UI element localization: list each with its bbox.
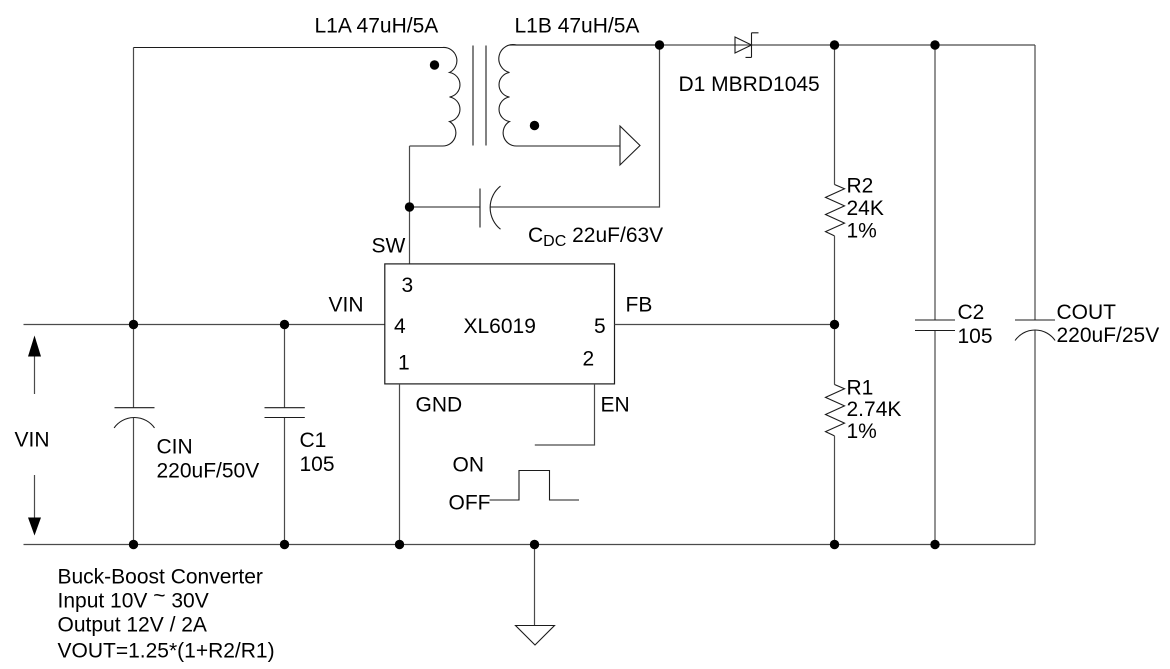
node junction VOUT/R2 top (830, 40, 839, 49)
svg-text:1%: 1% (847, 420, 877, 443)
ON/OFF pulse waveform (490, 471, 580, 501)
svg-text:XL6019: XL6019 (464, 315, 536, 338)
svg-text:CIN: CIN (157, 436, 193, 459)
wire: FB to divider (615, 324, 835, 326)
wire: CDC left segment (410, 206, 481, 208)
node junction VOUT/C2 top (930, 40, 939, 49)
node junction GND rail/IC GND (395, 540, 404, 549)
node junction GND rail/ground symbol (530, 540, 539, 549)
wire: GND pin stub to rail (399, 384, 401, 545)
svg-text:220uF/25V: 220uF/25V (1057, 324, 1160, 347)
wire: EN pin stub (535, 384, 595, 445)
arrow at secondary output (620, 126, 640, 165)
svg-text:L1A 47uH/5A: L1A 47uH/5A (315, 15, 439, 38)
svg-text:4: 4 (394, 315, 406, 338)
svg-text:3: 3 (402, 274, 414, 297)
node junction GND rail/C2 bottom (930, 540, 939, 549)
capacitor CIN plates (115, 407, 155, 409)
wire: left vertical rail x=133 (top segment above CIN) (133, 48, 135, 408)
node junction VIN rail/C1 (280, 320, 289, 329)
diode D1 MBRD1045 (735, 37, 752, 53)
wire: top output rail y=44.5 (secondary to COUT) (510, 44, 1036, 46)
svg-text:Output 12V / 2A: Output 12V / 2A (58, 614, 207, 637)
node junction L1B/D1 anode (655, 40, 664, 49)
svg-text:C2: C2 (958, 301, 985, 324)
svg-text:D1 MBRD1045: D1 MBRD1045 (679, 73, 820, 96)
VIN measure arrow (34, 356, 36, 520)
capacitor C2 plates (915, 320, 955, 331)
capacitor CDC plates (479, 189, 481, 228)
polarity dot primary (430, 60, 439, 69)
transformer core lines (473, 46, 486, 146)
svg-text:R2: R2 (847, 175, 874, 198)
node SW junction dot (405, 202, 414, 211)
wire: VIN input rail y=324 (24, 324, 385, 326)
svg-text:COUT: COUT (1057, 301, 1117, 324)
wire: left vertical rail x=133 (below CIN) (133, 418, 135, 545)
svg-text:105: 105 (300, 453, 335, 476)
ground stub (534, 545, 536, 626)
svg-text:R1: R1 (847, 377, 874, 400)
svg-text:FB: FB (626, 294, 653, 317)
svg-text:VIN: VIN (329, 294, 364, 317)
wire: CDC right segment and riser x=659 (491, 45, 660, 207)
svg-text:24K: 24K (847, 197, 884, 220)
resistor R1 (826, 385, 845, 436)
svg-text:GND: GND (416, 394, 463, 417)
inductor L1B secondary winding (499, 45, 660, 146)
node junction VIN rail/CIN (129, 320, 138, 329)
wire: COUT branch x=1034.5 (1034, 45, 1036, 545)
resistor R2 (826, 185, 845, 236)
wire: C1 branch x=284 (284, 325, 286, 545)
svg-text:220uF/50V: 220uF/50V (157, 460, 260, 483)
svg-text:Input 10V ~ 30V: Input 10V ~ 30V (58, 585, 209, 613)
svg-text:2.74K: 2.74K (847, 398, 902, 421)
svg-text:105: 105 (958, 325, 993, 348)
op-amp U1 XL6019 IC box (385, 264, 615, 384)
node junction GND rail/R1 bottom (830, 540, 839, 549)
svg-text:OFF: OFF (449, 492, 491, 515)
svg-text:L1B 47uH/5A: L1B 47uH/5A (515, 15, 640, 38)
svg-text:SW: SW (372, 235, 406, 258)
node junction GND rail/C1 (280, 540, 289, 549)
svg-text:EN: EN (601, 394, 630, 417)
ground symbol (516, 626, 555, 646)
polarity dot secondary (530, 121, 539, 130)
capacitor COUT plates (1015, 319, 1055, 321)
capacitor C1 plates (265, 408, 305, 418)
svg-text:VOUT=1.25*(1+R2/R1): VOUT=1.25*(1+R2/R1) (58, 640, 275, 663)
wire: bottom ground rail y=544 (24, 544, 1036, 546)
wire: SW branch x=409 from primary bottom to IC pin 3 (409, 146, 411, 264)
svg-text:2: 2 (583, 348, 595, 371)
wire: divider branch x=834 with resistors (834, 45, 836, 185)
svg-text:5: 5 (594, 315, 606, 338)
node junction FB/R2/R1 (830, 320, 839, 329)
svg-text:C1: C1 (300, 429, 327, 452)
svg-text:ON: ON (453, 454, 485, 477)
wire: C2 branch x=934.5 (934, 45, 936, 545)
svg-text:1: 1 (398, 352, 410, 375)
node junction GND rail/CIN (129, 540, 138, 549)
svg-text:VIN: VIN (15, 429, 50, 452)
svg-text:1%: 1% (847, 220, 877, 243)
inductor L1A primary winding with top wire (134, 47, 460, 146)
